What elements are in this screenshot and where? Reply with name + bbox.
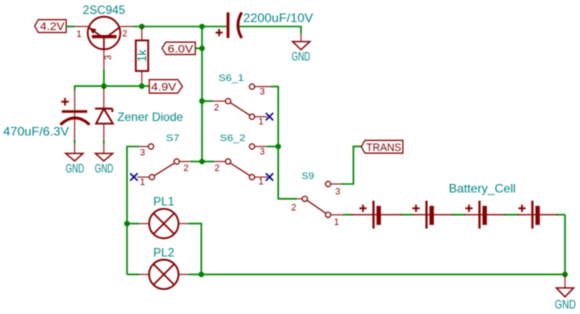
ground under C1: [292, 34, 311, 64]
svg-text:GND: GND: [292, 49, 311, 63]
wire Q1 emitter to node: [103, 70, 105, 86]
svg-text:PL2: PL2: [153, 245, 174, 259]
svg-text:Battery_Cell: Battery_Cell: [449, 181, 516, 195]
ground under D1: [95, 144, 114, 176]
switch S6_1: [202, 73, 271, 126]
global label 4.2V: [35, 20, 66, 34]
svg-text:2200uF/10V: 2200uF/10V: [243, 11, 313, 25]
svg-text:TRANS: TRANS: [366, 142, 401, 154]
global label TRANS: [361, 140, 403, 153]
svg-text:1: 1: [77, 29, 82, 39]
switch S7: [137, 133, 202, 187]
wire PL1 right to PL2 right: [188, 224, 201, 275]
svg-text:2: 2: [291, 203, 296, 213]
svg-text:2: 2: [214, 103, 219, 113]
svg-text:2SC945: 2SC945: [83, 3, 126, 17]
pin number 3 of Q1 (rotated): [103, 55, 113, 60]
no-connect X at S6_2 pin1: [266, 173, 273, 180]
svg-text:GND: GND: [95, 162, 114, 176]
junction PL2 right: [199, 272, 205, 278]
wire S9 pin3 to TRANS label: [341, 146, 361, 184]
wire top rail y=26.5: [133, 26, 227, 28]
svg-text:S7: S7: [166, 133, 180, 144]
junction node at Q1 emitter: [101, 83, 107, 89]
svg-text:S6_2: S6_2: [220, 133, 246, 144]
no-connect X at S6_1 pin1: [266, 113, 273, 120]
svg-text:S6_1: S6_1: [219, 73, 245, 84]
junction S7/S6_2 pin2: [199, 159, 205, 165]
lamp PL1: [127, 195, 188, 239]
no-connect X at S7 pin1: [130, 173, 137, 180]
wire S7 pin3 to left column: [127, 147, 139, 275]
global label 4.9V: [149, 80, 182, 94]
svg-text:3: 3: [335, 187, 340, 197]
node wire y=86.1: [75, 85, 150, 87]
junction left column at PL1: [124, 221, 130, 227]
svg-text:3: 3: [103, 55, 113, 60]
svg-text:1: 1: [140, 177, 145, 187]
battery BT4 Battery_Cell: [518, 201, 558, 229]
svg-text:GND: GND: [555, 297, 576, 311]
zener diode D1: [95, 86, 184, 140]
wire D1 to GND: [103, 141, 105, 144]
svg-text:2: 2: [122, 29, 127, 39]
resistor R 1k: [135, 27, 149, 87]
capacitor C2 470uF/6.3V: [3, 91, 89, 140]
svg-text:2: 2: [184, 163, 189, 173]
wire BT1 to BT2: [400, 214, 413, 216]
battery BT1 Battery_Cell: [352, 181, 516, 228]
global label 6.0V: [162, 42, 202, 55]
svg-text:PL1: PL1: [153, 195, 174, 209]
svg-text:6.0V: 6.0V: [168, 43, 194, 55]
junction S6_1 pin2: [199, 98, 205, 104]
wire down-left to C2: [74, 85, 76, 90]
ground under C2: [66, 144, 85, 176]
right column wire down to S9: [278, 147, 297, 199]
ground bottom right: [555, 274, 576, 311]
svg-text:2: 2: [215, 163, 220, 173]
battery BT3 Battery_Cell: [464, 201, 505, 229]
wire BT4 to corner: [557, 214, 565, 216]
junction at middle column top: [199, 24, 205, 30]
switch S9: [291, 171, 343, 227]
wire C2 to GND: [74, 139, 76, 143]
junction right column at S6_2 pin3: [275, 144, 281, 150]
junction 6.0V: [199, 46, 205, 52]
wire S9 pin1 to battery BT1: [343, 214, 353, 216]
junction at R1 top: [139, 24, 145, 30]
capacitor C1 2200uF/10V: [216, 11, 314, 38]
svg-text:GND: GND: [66, 162, 85, 176]
svg-text:3: 3: [140, 147, 145, 157]
svg-text:3: 3: [260, 147, 265, 157]
svg-text:Zener Diode: Zener Diode: [117, 110, 183, 124]
svg-text:4.9V: 4.9V: [151, 81, 177, 93]
wire C1 to GND corner: [240, 27, 302, 34]
junction node at R1 bottom: [139, 83, 145, 89]
svg-text:1k: 1k: [135, 49, 149, 62]
wire label 4.2V to Q1 base pin: [66, 26, 75, 28]
svg-text:470uF/6.3V: 470uF/6.3V: [3, 125, 69, 139]
svg-text:4.2V: 4.2V: [40, 21, 65, 33]
wire S6_2 pin3 to right column: [267, 146, 278, 148]
wire PL2 right to bottom rail: [188, 273, 201, 275]
svg-text:1: 1: [259, 116, 264, 126]
svg-text:S9: S9: [302, 171, 315, 182]
wire BT3 to BT4: [505, 214, 519, 216]
middle column vertical wire: [201, 27, 203, 162]
lamp PL2: [127, 245, 188, 289]
transistor Q1 2SC945: [75, 3, 133, 70]
wire battery to bottom rail: [564, 215, 566, 275]
svg-text:1: 1: [334, 217, 339, 227]
bottom rail wire: [201, 273, 565, 275]
wire S6_1 pin3 to right column: [271, 87, 278, 147]
svg-text:1: 1: [259, 177, 264, 187]
battery BT2 Battery_Cell: [412, 201, 452, 229]
wire BT2 to BT3: [452, 214, 466, 216]
switch S6_2: [202, 133, 267, 187]
svg-text:3: 3: [260, 87, 265, 97]
junction bottom right: [562, 272, 568, 278]
